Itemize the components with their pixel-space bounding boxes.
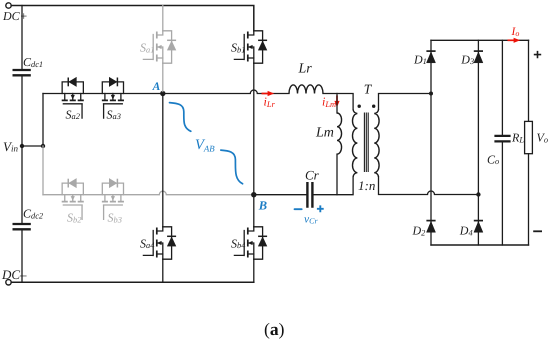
wire D1-D2 branch: [430, 40, 432, 245]
current arrow iLm: [336, 96, 338, 103]
output plus sign: [534, 51, 541, 58]
wire D3-D4 branch: [477, 40, 479, 245]
wire Sb1 source to node B: [253, 63, 255, 195]
diode D3: [474, 51, 483, 63]
VAB squiggle lower: [221, 150, 243, 184]
transformer secondary polarity dot: [372, 105, 375, 108]
capacitor Cdc2: [13, 224, 31, 229]
wire secondary top lead: [379, 94, 432, 110]
wire Vin link: [22, 145, 43, 147]
svg-text:Lr: Lr: [298, 62, 313, 77]
node secondary top junction: [429, 92, 433, 96]
wire secondary bottom lead right: [435, 194, 479, 196]
transformer T primary winding: [353, 109, 358, 177]
wire Sa1 source to node A (gray): [162, 63, 164, 91]
inductor Lm: [337, 113, 342, 154]
wire Vin drop to B-line (gray): [42, 146, 44, 195]
transistor Sb2 (inactive): [62, 183, 83, 219]
transformer core: [364, 113, 368, 173]
current arrow Io: [508, 39, 515, 41]
wire input column middle: [21, 77, 23, 223]
resistor RL: [525, 121, 533, 153]
transformer primary polarity dot: [358, 105, 361, 108]
wire Vin riser to A-line: [42, 94, 44, 147]
svg-text:Cr: Cr: [305, 167, 320, 182]
wire Lm top lead: [336, 94, 338, 114]
wire rectifier top rail: [431, 39, 529, 41]
wire secondary bottom lead left: [379, 177, 428, 195]
transistor Sb4: [234, 227, 262, 259]
wire input column upper: [21, 6, 23, 69]
node A junction: [160, 91, 165, 96]
current arrow iLr: [262, 93, 269, 95]
DC- terminal: [6, 280, 11, 285]
capacitor Cr: [307, 182, 312, 208]
wire Co branch lower: [501, 143, 503, 245]
wire RL branch lower: [528, 154, 530, 245]
svg-text:1:n: 1:n: [358, 178, 375, 193]
gray wire hop over Sa leg: [159, 191, 166, 194]
wire gray B-line right: [166, 194, 252, 196]
vCr minus sign: [294, 208, 303, 210]
DC+ terminal: [6, 3, 11, 8]
wire A-line left: [43, 93, 250, 95]
transistor Sa2: [62, 82, 83, 118]
wire A-line right: [257, 93, 289, 95]
capacitor Co: [494, 136, 510, 142]
node Vin branch junction: [41, 144, 45, 148]
wire top DC+ bus: [11, 6, 254, 31]
wire rectifier bottom rail: [431, 244, 529, 246]
transistor Sa1 (inactive): [143, 31, 171, 63]
VAB squiggle upper: [170, 103, 191, 132]
svg-text:(a): (a): [264, 319, 285, 339]
transistor Sb3 (inactive): [102, 183, 123, 219]
svg-text:DC–: DC–: [1, 267, 27, 282]
diode D4: [474, 221, 483, 233]
wire Co branch upper: [501, 40, 503, 134]
wire node A down to Sa4: [162, 94, 164, 227]
wire Sa1 drain (gray): [162, 6, 164, 31]
transistor Sa4: [143, 227, 171, 259]
node Vin junction: [20, 144, 24, 148]
transformer T secondary winding: [374, 109, 379, 177]
node secondary bottom junction: [476, 192, 480, 196]
wire hop over Sb leg: [250, 90, 257, 93]
diode D1: [426, 51, 435, 63]
wire Sb4 source to DC- bus: [253, 259, 255, 282]
svg-text:B: B: [258, 198, 267, 212]
wire B to Cr: [254, 194, 306, 196]
inductor Lr: [289, 85, 323, 94]
capacitor Cdc1: [13, 70, 31, 75]
wire Lm bottom lead: [336, 154, 338, 195]
node B junction: [251, 192, 256, 197]
output minus sign: [533, 230, 542, 232]
wire bottom DC- bus: [11, 281, 254, 283]
svg-text:Lm: Lm: [315, 125, 334, 140]
wire node B down to Sb4: [253, 195, 255, 227]
wire hop over D1 branch: [428, 191, 435, 195]
transistor Sb1: [234, 31, 262, 63]
wire Cr to primary bottom: [314, 177, 353, 195]
wire Sa4 source to DC- bus: [162, 259, 164, 282]
transistor Sa3: [102, 82, 123, 118]
wire Lr to primary: [323, 94, 353, 110]
wire gray B-line left: [43, 194, 159, 196]
vCr plus sign: [317, 205, 324, 212]
wire input column lower: [21, 231, 23, 283]
svg-text:DC+: DC+: [2, 9, 28, 23]
svg-text:A: A: [152, 81, 161, 93]
diode D2: [426, 221, 435, 233]
wire RL branch upper: [528, 40, 530, 121]
